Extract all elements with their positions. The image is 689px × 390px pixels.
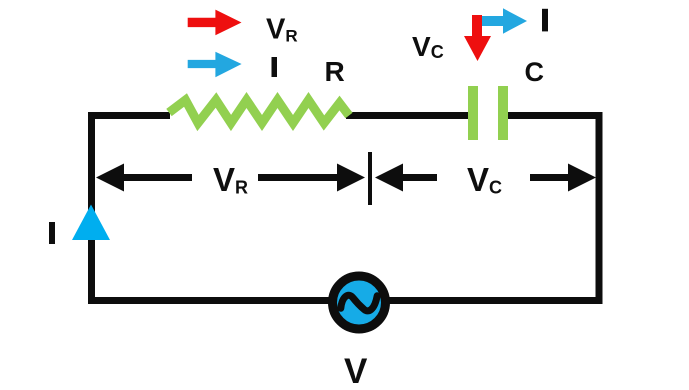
VC span right shaft [530,174,570,181]
AC source V (circle with sine wave) [333,276,386,329]
label I (left side) [49,222,55,244]
tick divider between VR and VC spans [368,152,372,205]
wire: main circuit loop (top-left stub, left side, bottom, right side, top-right stub) [92,116,600,301]
VR span left arrowhead [96,164,124,192]
svg-text:V: V [344,352,368,390]
VC span left arrowhead [375,164,403,192]
VR span right arrowhead [337,164,365,192]
svg-text:VC: VC [467,161,502,198]
cyan arrow I (top-right, pointing right) [472,8,527,33]
red arrow VR (top-left, pointing right) [188,10,242,36]
cyan current arrow I (left wire, pointing up) [72,205,110,241]
svg-text:VR: VR [213,161,248,198]
VC span left shaft [401,174,437,181]
cyan arrow I (top-left, pointing right) [188,52,242,78]
svg-text:VR: VR [266,14,298,46]
svg-text:VC: VC [412,31,444,62]
resistor R (green zigzag) [169,100,349,123]
wire: top segment between resistor and capacitor [346,112,470,119]
AC source sine wave [341,295,377,311]
red arrow VC (pointing down at capacitor) [464,15,491,61]
VR span right shaft [258,174,339,181]
capacitor C left plate [468,86,478,140]
svg-text:C: C [525,57,545,87]
VC span right arrowhead [568,164,596,192]
VR span left shaft [122,174,192,181]
capacitor C right plate [498,86,508,140]
svg-text:R: R [325,56,345,87]
label I (below VR arrow) [272,57,278,77]
label I (top-right) [542,9,548,32]
